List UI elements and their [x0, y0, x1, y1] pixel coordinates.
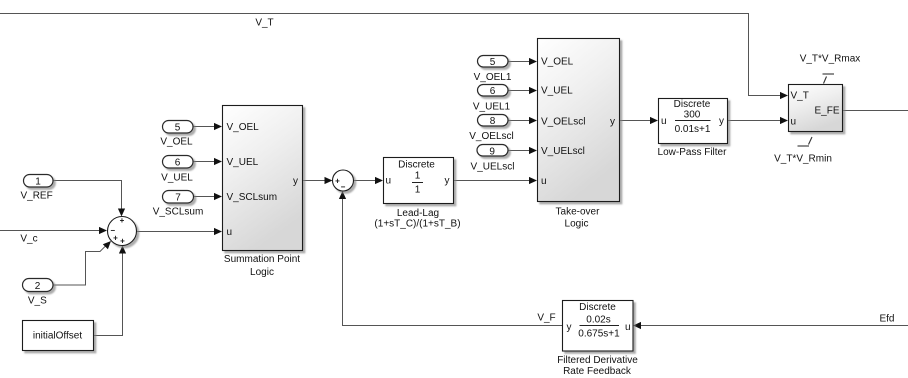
- svg-text:V_UEL: V_UEL: [541, 86, 573, 97]
- svg-text:y: y: [445, 176, 450, 187]
- svg-text:6: 6: [175, 158, 181, 169]
- svg-text:u: u: [791, 117, 797, 128]
- svg-text:u: u: [386, 176, 392, 187]
- svg-text:Logic: Logic: [250, 267, 274, 278]
- svg-text:Low-Pass Filter: Low-Pass Filter: [658, 147, 728, 158]
- svg-text:V_UEL1: V_UEL1: [473, 102, 511, 113]
- svg-text:Efd: Efd: [879, 313, 894, 324]
- svg-text:5: 5: [490, 57, 496, 68]
- svg-text:300: 300: [684, 109, 701, 120]
- svg-text:1: 1: [415, 171, 421, 182]
- svg-text:V_T*V_Rmin: V_T*V_Rmin: [774, 153, 832, 164]
- svg-text:5: 5: [175, 123, 181, 134]
- svg-text:6: 6: [490, 86, 496, 97]
- svg-text:y: y: [610, 117, 615, 128]
- svg-text:E_FE: E_FE: [814, 106, 839, 117]
- svg-text:y: y: [567, 322, 572, 333]
- svg-text:V_SCLsum: V_SCLsum: [227, 192, 278, 203]
- svg-text:V_SCLsum: V_SCLsum: [153, 206, 204, 217]
- svg-text:Rate Feedback: Rate Feedback: [563, 366, 632, 377]
- svg-text:Logic: Logic: [565, 218, 589, 229]
- svg-text:V_OELscl: V_OELscl: [541, 117, 585, 128]
- svg-text:V_T: V_T: [791, 91, 809, 102]
- svg-text:V_OEL: V_OEL: [541, 57, 574, 68]
- svg-text:9: 9: [489, 147, 495, 158]
- svg-text:8: 8: [490, 116, 496, 127]
- svg-text:+: +: [113, 234, 118, 243]
- svg-text:Filtered Derivative: Filtered Derivative: [557, 355, 638, 366]
- svg-text:initialOffset: initialOffset: [33, 331, 83, 342]
- svg-text:1: 1: [415, 185, 421, 196]
- svg-text:y: y: [293, 176, 298, 187]
- svg-text:V_OELscl: V_OELscl: [469, 131, 513, 142]
- svg-text:V_OEL: V_OEL: [227, 122, 260, 133]
- svg-text:Discrete: Discrete: [579, 302, 616, 313]
- svg-text:u: u: [625, 322, 631, 333]
- svg-text:u: u: [541, 176, 547, 187]
- svg-text:V_OEL: V_OEL: [160, 136, 193, 147]
- svg-text:−: −: [341, 183, 346, 192]
- svg-text:y: y: [719, 116, 724, 127]
- svg-text:0.01s+1: 0.01s+1: [675, 124, 711, 135]
- svg-text:V_UEL: V_UEL: [227, 157, 259, 168]
- svg-text:V_REF: V_REF: [20, 190, 52, 201]
- svg-text:V_c: V_c: [20, 233, 37, 244]
- svg-text:+: +: [335, 177, 340, 186]
- svg-text:7: 7: [175, 193, 181, 204]
- svg-text:V_UELscl: V_UELscl: [471, 162, 515, 173]
- svg-text:V_OEL1: V_OEL1: [474, 72, 512, 83]
- svg-text:V_UELscl: V_UELscl: [541, 146, 585, 157]
- svg-text:+: +: [120, 237, 125, 246]
- svg-text:Take-over: Take-over: [556, 207, 601, 218]
- svg-text:0.675s+1: 0.675s+1: [578, 328, 620, 339]
- svg-text:Summation Point: Summation Point: [224, 254, 300, 265]
- svg-text:V_T: V_T: [255, 18, 273, 29]
- svg-text:Discrete: Discrete: [398, 160, 435, 171]
- svg-text:(1+sT_C)/(1+sT_B): (1+sT_C)/(1+sT_B): [374, 219, 460, 230]
- svg-text:u: u: [661, 116, 667, 127]
- svg-text:0.02s: 0.02s: [586, 314, 610, 325]
- svg-text:Lead-Lag: Lead-Lag: [397, 208, 439, 219]
- svg-text:2: 2: [35, 281, 41, 292]
- svg-text:V_UEL: V_UEL: [161, 172, 193, 183]
- svg-text:V_T*V_Rmax: V_T*V_Rmax: [800, 54, 861, 65]
- svg-text:1: 1: [35, 177, 41, 188]
- svg-text:u: u: [227, 227, 233, 238]
- svg-text:V_S: V_S: [28, 295, 47, 306]
- svg-text:+: +: [120, 216, 125, 225]
- svg-text:V_F: V_F: [537, 313, 555, 324]
